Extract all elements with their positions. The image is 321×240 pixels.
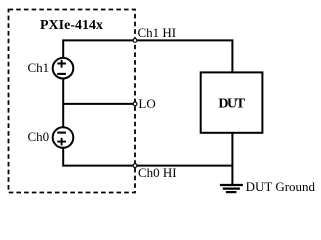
enclosure dashed box PXIe-414x — [9, 10, 136, 193]
svg-text:LO: LO — [138, 96, 155, 111]
wire trunk Ch1 bottom to Ch0 top — [62, 79, 64, 127]
label DUT Ground — [246, 179, 316, 194]
wire DUT bottom to ground — [231, 133, 233, 185]
node LO — [133, 102, 137, 106]
ground symbol — [220, 185, 243, 192]
source Ch1 — [53, 58, 74, 79]
svg-text:Ch0: Ch0 — [28, 129, 50, 144]
label Ch1 HI — [138, 25, 177, 40]
label PXIe-414x — [40, 18, 103, 33]
label Ch0 HI — [138, 165, 177, 180]
svg-text:PXIe-414x: PXIe-414x — [40, 18, 103, 33]
svg-text:Ch1: Ch1 — [28, 60, 50, 75]
svg-text:Ch1 HI: Ch1 HI — [138, 25, 177, 40]
svg-text:Ch0 HI: Ch0 HI — [138, 165, 177, 180]
label Ch0 — [28, 129, 50, 144]
label DUT — [218, 96, 245, 111]
label Ch1 — [28, 60, 50, 75]
node Ch0 HI — [133, 164, 137, 168]
wire LO branch — [63, 103, 135, 105]
svg-text:DUT Ground: DUT Ground — [246, 179, 316, 194]
source Ch0 — [53, 127, 74, 148]
label LO — [138, 96, 155, 111]
node Ch1 HI — [133, 39, 137, 43]
wire Ch1 top to Ch1 HI to DUT top — [63, 40, 232, 72]
svg-text:DUT: DUT — [218, 96, 245, 111]
wire Ch0 bottom to Ch0 HI to ground stem — [63, 148, 232, 165]
DUT box — [201, 72, 263, 132]
